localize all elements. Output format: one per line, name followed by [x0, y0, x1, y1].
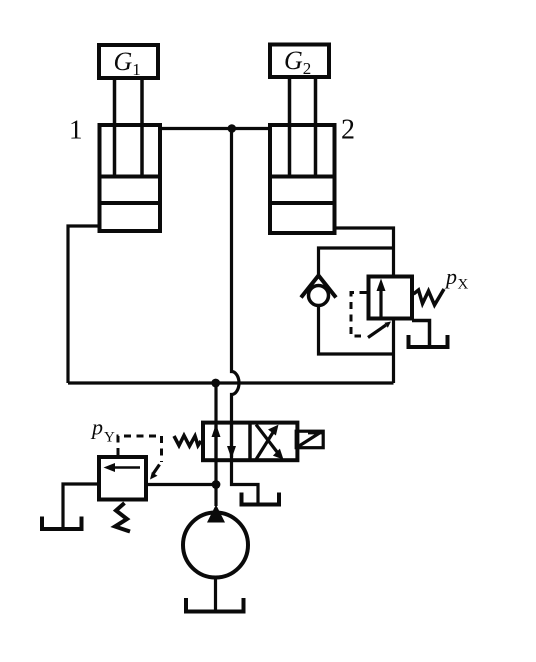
- valve pY body: [99, 457, 146, 500]
- wire top header between cylinders: [162, 127, 268, 130]
- svg-text:p: p: [90, 415, 103, 440]
- pump P1 outlet triangle: [207, 505, 225, 523]
- node junction pump: [212, 480, 221, 489]
- wire valve drain to tank: [232, 462, 259, 505]
- cylinder C1 piston: [100, 177, 160, 204]
- cylinder C2 body: [270, 125, 335, 233]
- pump P1 circle: [183, 513, 248, 578]
- valve pY spring: [115, 503, 130, 532]
- directional valve down arrow: [230, 424, 233, 457]
- directional valve divider: [248, 421, 252, 462]
- wire relief pX drain: [412, 321, 430, 348]
- tank T1 (pX drain): [409, 335, 448, 347]
- svg-text:1: 1: [69, 115, 83, 145]
- svg-text:G2: G2: [284, 46, 311, 78]
- tank T3 (valve drain): [242, 493, 280, 505]
- node top junction: [228, 124, 237, 133]
- svg-text:Y: Y: [104, 430, 115, 446]
- valve pY arrow: [112, 466, 140, 469]
- check valve V1 ball: [309, 286, 329, 306]
- relief valve pX body: [369, 277, 413, 319]
- wire check valve to relief outlet: [319, 305, 394, 383]
- valve pY pilot dashed line: [118, 436, 162, 462]
- relief valve pX arrow: [379, 288, 382, 319]
- tank T4 (pump suction): [186, 598, 244, 612]
- wire branch to check valve: [319, 248, 394, 276]
- svg-text:G1: G1: [114, 47, 141, 79]
- directional valve spring: [174, 436, 201, 447]
- svg-text:p: p: [444, 264, 457, 289]
- directional valve crossed arrows: [256, 425, 279, 460]
- cylinder C1 body: [100, 125, 161, 231]
- directional valve body left position: [203, 423, 297, 461]
- wire junction to valve port P: [214, 383, 217, 506]
- wire cylinder C1 left return: [68, 226, 98, 383]
- cylinder C2 rod: [290, 79, 316, 176]
- directional valve up arrow: [214, 425, 217, 458]
- cylinder C2 piston: [271, 177, 335, 204]
- wire center supply line with hop: [232, 129, 240, 463]
- relief valve pX spring: [414, 289, 445, 305]
- solenoid: [296, 431, 323, 448]
- relief valve pX pilot dashed line: [351, 293, 367, 337]
- wire pY outlet: [148, 483, 216, 486]
- wire pump suction: [214, 578, 217, 612]
- check valve V1 seat: [301, 276, 336, 298]
- gauge G1 box: [99, 45, 158, 78]
- wire pY to tank: [63, 484, 97, 529]
- wire main horizontal return line: [68, 381, 394, 384]
- relief valve pX pilot arrow: [368, 325, 386, 338]
- cylinder C1 rod: [115, 80, 143, 176]
- tank T2 (pY drain): [42, 517, 82, 530]
- svg-text:2: 2: [341, 115, 355, 146]
- valve pY pilot arrow: [153, 465, 160, 475]
- node junction dot on return line: [211, 379, 220, 388]
- gauge G2 box: [270, 45, 329, 78]
- svg-text:X: X: [458, 277, 469, 293]
- wire cylinder C2 right branch: [336, 228, 394, 275]
